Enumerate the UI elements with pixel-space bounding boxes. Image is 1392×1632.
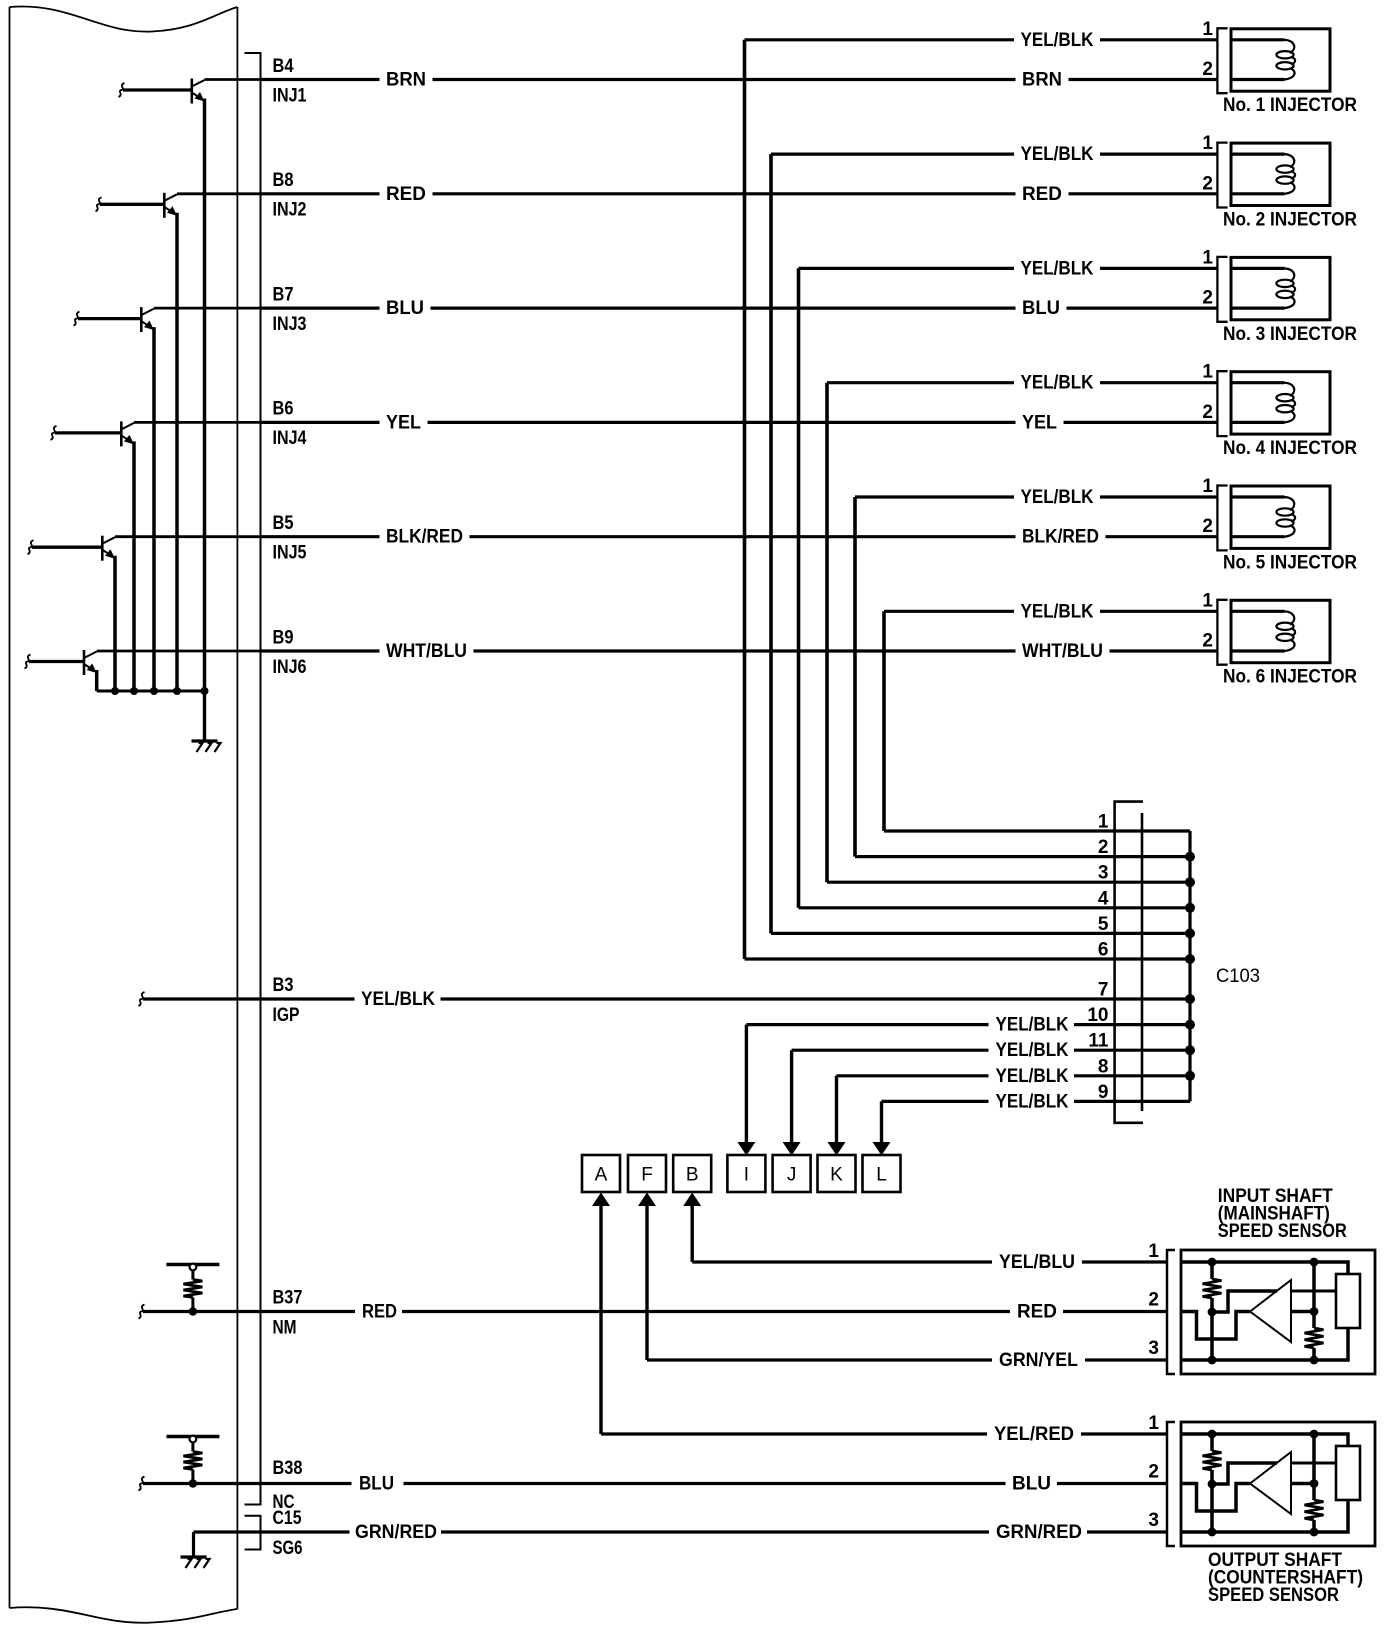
- wire YEL/BLK: C103 pin 11 to connector J: [792, 1049, 989, 1052]
- wire: Q4 collector to pin B6: [134, 421, 261, 424]
- svg-text:BLU: BLU: [1022, 298, 1060, 319]
- wire BRN: ECM pin B4 to No.1 injector pin 2: [261, 78, 380, 81]
- wire: C103 pin 4 to injector feed column: [799, 906, 1115, 909]
- off-page connector L: [863, 1155, 901, 1192]
- svg-text:1: 1: [1202, 247, 1213, 268]
- junction: bus / Q3 emitter: [150, 687, 158, 695]
- svg-text:B6: B6: [273, 399, 294, 420]
- svg-text:YEL/BLK: YEL/BLK: [996, 1066, 1069, 1087]
- svg-text:INJ6: INJ6: [273, 657, 307, 678]
- svg-text:YEL/BLK: YEL/BLK: [996, 1040, 1069, 1061]
- wire YEL/BLK: C103 pin 9 to connector L: [882, 1100, 989, 1103]
- svg-text:9: 9: [1098, 1082, 1109, 1103]
- No. 5 injector (solenoid coil): [1231, 486, 1330, 548]
- transistor Q3 (injector driver 3): [74, 307, 155, 332]
- resistor: B37 pull-up: [166, 1264, 219, 1316]
- connector bracket, No.4 injector: [1217, 371, 1227, 436]
- C103 pin 10: [1115, 1023, 1190, 1026]
- wire RED: B37 to input sensor pin 2: [261, 1310, 356, 1313]
- svg-text:YEL/BLU: YEL/BLU: [999, 1252, 1075, 1273]
- svg-text:1: 1: [1098, 812, 1109, 833]
- svg-text:No. 1 INJECTOR: No. 1 INJECTOR: [1223, 95, 1357, 116]
- svg-text:BLK/RED: BLK/RED: [386, 527, 463, 548]
- svg-text:J: J: [787, 1165, 797, 1186]
- wire: Q2 collector to pin B8: [177, 192, 261, 195]
- wire: YEL/BLK vertical down to C103 pin 4: [797, 268, 801, 907]
- svg-text:F: F: [641, 1165, 653, 1186]
- svg-text:1: 1: [1202, 476, 1213, 497]
- connector bracket, No.5 injector: [1217, 486, 1227, 551]
- ground: transistor emitter bus: [192, 739, 218, 742]
- wire: C103 pin 5 to injector feed column: [771, 932, 1115, 935]
- wire YEL/BLU: connector B to input shaft speed sensor pin 1: [692, 1260, 992, 1263]
- wire YEL/BLK: B3 IGP stub inside ECM: [139, 992, 145, 1006]
- wire: connector F down to sensor wire: [645, 1205, 648, 1360]
- svg-text:SG6: SG6: [273, 1538, 303, 1559]
- connector bracket, No.6 injector: [1217, 600, 1227, 665]
- svg-text:2: 2: [1202, 402, 1213, 423]
- wire: Q3 collector to pin B7: [154, 307, 261, 310]
- wire: Q6 emitter down to common bus: [95, 670, 99, 691]
- wire: C103 pin 3 to injector feed column: [827, 881, 1115, 884]
- svg-text:K: K: [830, 1165, 843, 1186]
- wire BLU: B38 to output sensor pin 2: [261, 1482, 352, 1485]
- wire: connector B down to sensor wire: [691, 1205, 694, 1262]
- svg-text:BLU: BLU: [1012, 1474, 1051, 1495]
- wire: YEL/BLK vertical down to C103 pin 1: [882, 611, 886, 831]
- wire RED: ECM pin B8 to No.2 injector pin 2: [261, 192, 380, 195]
- wire: YEL/BLK vertical down to C103 pin 5: [769, 154, 773, 933]
- C103 right-side bus: [1188, 831, 1191, 1101]
- transistor Q4 (injector driver 4): [51, 421, 135, 446]
- off-page connector K: [818, 1155, 856, 1192]
- svg-text:YEL/BLK: YEL/BLK: [1021, 30, 1094, 51]
- svg-text:NM: NM: [273, 1318, 297, 1339]
- off-page connector F: [628, 1155, 666, 1192]
- svg-text:2: 2: [1202, 288, 1213, 309]
- off-page connector J: [773, 1155, 811, 1192]
- output shaft (countershaft) speed sensor (internal circuit): [1181, 1422, 1375, 1546]
- wire BLU: ECM pin B7 to No.3 injector pin 2: [261, 307, 380, 310]
- svg-text:B: B: [686, 1165, 699, 1186]
- svg-text:INJ4: INJ4: [273, 428, 307, 449]
- No. 4 injector (solenoid coil): [1231, 372, 1330, 434]
- wire GRN/YEL: connector F to input sensor pin 3: [647, 1358, 992, 1361]
- wire: vertical down to K with arrow: [835, 1076, 838, 1144]
- svg-text:YEL/BLK: YEL/BLK: [361, 989, 435, 1010]
- svg-text:SPEED SENSOR: SPEED SENSOR: [1218, 1221, 1347, 1242]
- svg-text:A: A: [595, 1165, 608, 1186]
- svg-text:8: 8: [1098, 1056, 1109, 1077]
- wire: Q5 collector to pin B5: [115, 535, 261, 538]
- svg-text:YEL/BLK: YEL/BLK: [996, 1015, 1069, 1036]
- svg-text:1: 1: [1202, 590, 1213, 611]
- ECM module outline (torn-edge box): [10, 6, 238, 31]
- wire: YEL/BLK vertical down to C103 pin 6: [743, 40, 747, 959]
- input shaft (mainshaft) speed sensor connector bracket: [1167, 1250, 1175, 1374]
- svg-text:SPEED SENSOR: SPEED SENSOR: [1208, 1585, 1339, 1606]
- wire BLK/RED: ECM pin B5 to No.5 injector pin 2: [261, 535, 380, 538]
- wire: YEL/BLK vertical down to C103 pin 3: [825, 383, 829, 883]
- svg-text:2: 2: [1098, 837, 1109, 858]
- No. 1 injector (solenoid coil): [1231, 29, 1330, 91]
- svg-text:B5: B5: [273, 513, 294, 534]
- C103 pin 2: [1115, 855, 1190, 858]
- wire: bus down to ground: [203, 691, 206, 741]
- wire: Q4 emitter down to common bus: [132, 441, 136, 691]
- svg-text:10: 10: [1087, 1005, 1108, 1026]
- wire: C103 pin 1 to injector feed column: [884, 829, 1115, 832]
- transistor Q1 (injector driver 1): [119, 79, 205, 104]
- svg-text:B37: B37: [273, 1288, 303, 1309]
- off-page connector I: [727, 1155, 765, 1192]
- svg-text:YEL: YEL: [1022, 412, 1057, 433]
- svg-text:4: 4: [1098, 888, 1109, 909]
- C103 pin 3: [1115, 881, 1190, 884]
- wire: Q1 collector to pin B4: [205, 78, 261, 81]
- svg-text:1: 1: [1202, 133, 1213, 154]
- svg-text:2: 2: [1202, 173, 1213, 194]
- svg-text:11: 11: [1088, 1031, 1109, 1052]
- svg-text:BLK/RED: BLK/RED: [1022, 527, 1099, 548]
- wire YEL/BLK: C103 pin 10 to connector I: [746, 1023, 988, 1026]
- C103 pin 7: [1115, 997, 1190, 1000]
- svg-text:3: 3: [1098, 863, 1109, 884]
- wire YEL/BLK: No.5 injector pin 1 feed: [855, 495, 1014, 498]
- wire YEL/BLK: No.3 injector pin 1 feed: [799, 267, 1015, 270]
- wire WHT/BLU: ECM pin B9 to No.6 injector pin 2: [261, 649, 380, 652]
- svg-text:YEL/BLK: YEL/BLK: [996, 1091, 1069, 1112]
- wire: vertical down to J with arrow: [790, 1050, 793, 1143]
- wire YEL/BLK: No.6 injector pin 1 feed: [884, 610, 1014, 613]
- wire GRN/RED: C15 to output sensor pin 3: [194, 1530, 350, 1533]
- wire: connector A down to sensor wire: [599, 1205, 602, 1434]
- svg-text:No. 6 INJECTOR: No. 6 INJECTOR: [1223, 667, 1357, 688]
- resistor: B38 pull-up: [166, 1436, 219, 1488]
- svg-text:GRN/RED: GRN/RED: [355, 1522, 437, 1543]
- wire: Q1 emitter down to common bus: [203, 99, 207, 692]
- C103 pin 6: [1115, 957, 1190, 960]
- wire: vertical down to I with arrow: [745, 1025, 748, 1144]
- svg-text:No. 3 INJECTOR: No. 3 INJECTOR: [1223, 324, 1357, 345]
- svg-text:C103: C103: [1216, 966, 1260, 987]
- wire: Q6 collector to pin B9: [97, 650, 261, 653]
- wire: C103 pin 6 to injector feed column: [745, 957, 1115, 960]
- C103 pin 1: [1115, 829, 1190, 832]
- wire YEL/BLK: C103 pin 8 to connector K: [837, 1074, 989, 1077]
- wire YEL/BLK: No.2 injector pin 1 feed: [771, 153, 1014, 156]
- svg-text:7: 7: [1098, 980, 1109, 1001]
- svg-text:BLU: BLU: [386, 298, 424, 319]
- svg-text:No. 5 INJECTOR: No. 5 INJECTOR: [1223, 552, 1357, 573]
- wire YEL/BLK: No.1 injector pin 1 feed: [745, 38, 1015, 41]
- off-page connector B: [673, 1155, 711, 1192]
- wire: Q2 emitter down to common bus: [175, 213, 179, 691]
- svg-text:INJ5: INJ5: [273, 543, 307, 564]
- svg-text:2: 2: [1148, 1290, 1159, 1311]
- svg-text:YEL/RED: YEL/RED: [994, 1424, 1074, 1445]
- svg-text:2: 2: [1202, 631, 1213, 652]
- wire YEL/BLK: No.4 injector pin 1 feed: [827, 381, 1014, 384]
- No. 3 injector (solenoid coil): [1231, 257, 1330, 319]
- svg-text:1: 1: [1148, 1413, 1159, 1434]
- svg-text:B8: B8: [273, 170, 294, 191]
- svg-text:INJ2: INJ2: [273, 200, 307, 221]
- connector bracket, No.1 injector: [1217, 28, 1227, 93]
- wire YEL/BLK: B3 to C103 pin 7: [261, 997, 355, 1000]
- connector C103 strip: [1115, 802, 1143, 1123]
- svg-text:No. 4 INJECTOR: No. 4 INJECTOR: [1223, 438, 1357, 459]
- svg-text:YEL/BLK: YEL/BLK: [1021, 258, 1094, 279]
- svg-text:B4: B4: [273, 56, 294, 77]
- No. 6 injector (solenoid coil): [1231, 600, 1330, 662]
- svg-text:B7: B7: [273, 284, 294, 305]
- connector bracket, No.2 injector: [1217, 143, 1227, 208]
- wire YEL/RED: connector A to output sensor pin 1: [601, 1432, 987, 1435]
- svg-text:INJ1: INJ1: [273, 85, 307, 106]
- svg-text:L: L: [876, 1165, 887, 1186]
- svg-text:RED: RED: [1017, 1302, 1057, 1323]
- transistor Q5 (injector driver 5): [28, 536, 116, 561]
- svg-text:1: 1: [1148, 1241, 1159, 1262]
- svg-text:BLU: BLU: [359, 1474, 394, 1495]
- svg-text:3: 3: [1148, 1510, 1159, 1531]
- svg-text:I: I: [744, 1165, 749, 1186]
- junction: bus / Q4 emitter: [130, 687, 138, 695]
- svg-text:RED: RED: [1022, 184, 1062, 205]
- ECM connector B (pin strip): [245, 53, 261, 1505]
- input shaft (mainshaft) speed sensor (internal circuit): [1181, 1250, 1375, 1374]
- No. 2 injector (solenoid coil): [1231, 143, 1330, 205]
- C103 pin 11: [1115, 1049, 1190, 1052]
- svg-text:1: 1: [1202, 19, 1213, 40]
- svg-text:WHT/BLU: WHT/BLU: [1022, 641, 1103, 662]
- wire: Q5 emitter down to common bus: [113, 556, 117, 691]
- svg-text:2: 2: [1202, 59, 1213, 80]
- svg-text:5: 5: [1098, 914, 1109, 935]
- ground: C15 sensor ground: [192, 1532, 195, 1557]
- output shaft (countershaft) speed sensor connector bracket: [1167, 1422, 1175, 1546]
- ECM connector C (pin strip): [245, 1516, 261, 1550]
- svg-text:WHT/BLU: WHT/BLU: [386, 641, 467, 662]
- svg-text:B3: B3: [273, 975, 294, 996]
- svg-text:RED: RED: [386, 184, 426, 205]
- svg-text:YEL/BLK: YEL/BLK: [1021, 487, 1094, 508]
- off-page connector A: [582, 1155, 620, 1192]
- svg-text:YEL/BLK: YEL/BLK: [1021, 373, 1094, 394]
- wire RED: B37 stub inside ECM: [139, 1305, 145, 1319]
- junction: bus / Q1 emitter: [201, 687, 209, 695]
- svg-text:INJ3: INJ3: [273, 314, 307, 335]
- svg-text:BRN: BRN: [386, 70, 426, 91]
- C103 pin 9: [1115, 1100, 1190, 1103]
- svg-text:RED: RED: [362, 1302, 397, 1323]
- svg-text:BRN: BRN: [1022, 70, 1062, 91]
- svg-text:6: 6: [1098, 940, 1109, 961]
- C103 pin 8: [1115, 1074, 1190, 1077]
- svg-text:B9: B9: [273, 627, 294, 648]
- svg-text:IGP: IGP: [273, 1005, 300, 1026]
- svg-text:3: 3: [1148, 1338, 1159, 1359]
- svg-text:1: 1: [1202, 362, 1213, 383]
- svg-text:GRN/RED: GRN/RED: [996, 1522, 1082, 1543]
- svg-text:2: 2: [1202, 516, 1213, 537]
- transistor Q6 (injector driver 6): [25, 650, 97, 675]
- svg-text:YEL: YEL: [386, 412, 421, 433]
- wire YEL: ECM pin B6 to No.4 injector pin 2: [261, 421, 380, 424]
- wire: Q3 emitter down to common bus: [152, 327, 156, 691]
- svg-text:C15: C15: [273, 1508, 302, 1529]
- wire BLU: B38 stub inside ECM: [139, 1477, 145, 1491]
- C103 pin 4: [1115, 906, 1190, 909]
- transistor Q2 (injector driver 2): [96, 193, 178, 218]
- junction: bus / Q2 emitter: [173, 687, 181, 695]
- svg-text:YEL/BLK: YEL/BLK: [1021, 601, 1094, 622]
- wire: vertical down to L with arrow: [880, 1101, 883, 1143]
- svg-text:B38: B38: [273, 1458, 303, 1479]
- connector bracket, No.3 injector: [1217, 257, 1227, 322]
- C103 pin 5: [1115, 932, 1190, 935]
- wire: C103 pin 2 to injector feed column: [855, 855, 1115, 858]
- junction: bus / Q5 emitter: [111, 687, 119, 695]
- svg-text:YEL/BLK: YEL/BLK: [1021, 144, 1094, 165]
- svg-text:2: 2: [1148, 1462, 1159, 1483]
- svg-text:GRN/YEL: GRN/YEL: [999, 1350, 1078, 1371]
- wire: YEL/BLK vertical down to C103 pin 2: [853, 497, 857, 857]
- svg-text:No. 2 INJECTOR: No. 2 INJECTOR: [1223, 210, 1357, 231]
- wire: emitter common bus: [97, 690, 205, 693]
